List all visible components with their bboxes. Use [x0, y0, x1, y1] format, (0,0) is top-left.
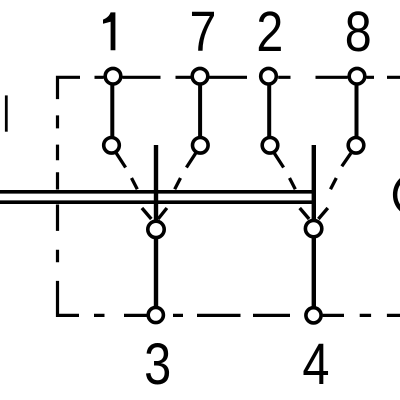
pole 4 arrow stroke left [300, 208, 309, 219]
dashed wiper path from contact 8 to pole 4 [331, 153, 351, 189]
actuator bar lower line [0, 200, 316, 204]
svg-text:8: 8 [345, 0, 372, 64]
svg-text:7: 7 [190, 0, 217, 64]
pin label 2 [256, 0, 283, 64]
lamp circle (cropped) at right edge [395, 174, 400, 215]
contact 8 lower contact circle [348, 138, 364, 154]
pole 4 arrow stroke right [318, 208, 327, 219]
pole 3 arrow stroke right [158, 208, 167, 219]
svg-text:2: 2 [256, 0, 283, 64]
pole 4 shaft wire [312, 145, 316, 308]
terminal 7 top contact circle [192, 68, 208, 84]
dashed wiper path from contact 2 to pole 4 [274, 153, 295, 189]
pole 3 arrow stroke left [142, 208, 151, 219]
contact 8 stem wire [355, 77, 359, 146]
enclosure top-left corner [58, 77, 81, 99]
terminal 2 top contact circle [261, 68, 277, 84]
contact 2 stem wire [267, 77, 271, 146]
enclosure bottom-left corner [58, 281, 80, 316]
terminal 4 contact circle [306, 308, 321, 323]
terminal 3 contact circle [148, 307, 163, 322]
pole 3 moving contact circle [148, 221, 164, 237]
pole 3 shaft wire [154, 145, 158, 308]
enclosure bottom border dashes [94, 314, 400, 317]
contact 1 stem wire [110, 77, 114, 146]
pin label 7 [190, 0, 217, 64]
terminal 8 top contact circle [349, 68, 365, 84]
contact 7 stem wire [198, 77, 202, 146]
actuator bar upper line [0, 190, 316, 194]
pin label 3 [144, 333, 171, 397]
pole 4 moving contact circle [305, 220, 321, 236]
enclosure left border dashes [56, 115, 59, 262]
svg-text:4: 4 [302, 333, 329, 397]
terminal 1 top contact circle [105, 68, 121, 84]
cropped symbol bar at left edge [5, 95, 8, 131]
contact 2 lower contact circle [262, 138, 278, 154]
pin label 8 [345, 0, 372, 64]
enclosure top border (dash-dot through terminals) [95, 76, 400, 79]
contact 7 lower contact circle [193, 138, 209, 154]
contact 1 lower contact circle [104, 138, 120, 154]
dashed wiper path from contact 7 to pole 3 [175, 153, 196, 189]
dashed wiper path from contact 1 to pole 3 [116, 153, 137, 189]
svg-text:3: 3 [144, 333, 171, 397]
pin label 1 [103, 12, 115, 50]
pin label 4 [302, 333, 329, 397]
